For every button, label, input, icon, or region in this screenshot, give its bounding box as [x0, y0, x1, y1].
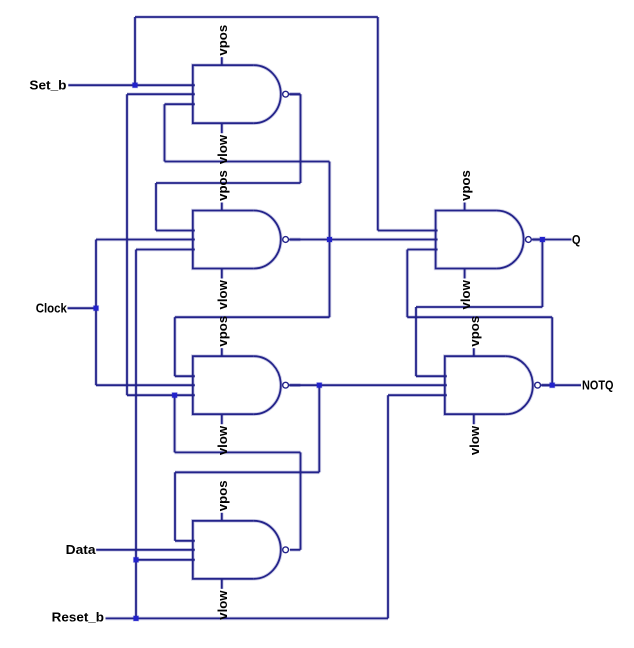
- svg-text:vpos: vpos: [458, 170, 473, 201]
- svg-text:vlow: vlow: [215, 279, 230, 309]
- svg-text:vlow: vlow: [215, 134, 230, 164]
- svg-text:Reset_b: Reset_b: [52, 610, 104, 625]
- svg-text:vlow: vlow: [215, 425, 230, 455]
- svg-text:Data: Data: [66, 542, 97, 557]
- svg-text:Q: Q: [572, 233, 581, 247]
- svg-text:Set_b: Set_b: [29, 78, 66, 93]
- svg-text:vlow: vlow: [215, 590, 230, 620]
- svg-text:vlow: vlow: [467, 425, 482, 455]
- svg-text:vpos: vpos: [467, 316, 482, 347]
- svg-text:vpos: vpos: [215, 480, 230, 511]
- svg-text:vpos: vpos: [215, 170, 230, 201]
- svg-text:vlow: vlow: [458, 279, 473, 309]
- svg-text:vpos: vpos: [215, 316, 230, 347]
- svg-text:NOTQ: NOTQ: [582, 379, 614, 393]
- svg-text:Clock: Clock: [36, 302, 67, 316]
- svg-text:vpos: vpos: [215, 25, 230, 56]
